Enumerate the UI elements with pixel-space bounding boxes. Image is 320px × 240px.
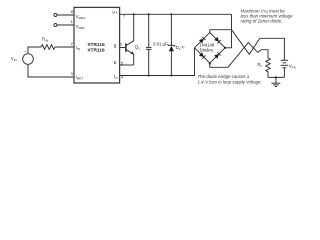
wire top vertex to pair: [210, 30, 232, 33]
node: cap bottom: [148, 74, 150, 76]
svg-text:B: B: [114, 43, 117, 48]
node: collector junction: [133, 13, 135, 15]
svg-text:6: 6: [120, 42, 122, 47]
node: ground junction: [275, 76, 277, 78]
node: bridge right vertex: [224, 47, 226, 49]
terminal VREG (open circle): [54, 14, 57, 17]
twisted pair wire A (top): [232, 30, 285, 60]
resistor RIN: [41, 45, 55, 50]
wire RL bottom: [267, 72, 269, 78]
svg-text:D1(1): D1(1): [176, 45, 185, 51]
wire ground rail: [268, 76, 284, 78]
node: bridge bottom vertex: [209, 63, 211, 65]
wire RIN to pin2: [55, 46, 74, 48]
svg-text:+: +: [24, 50, 26, 54]
svg-text:5: 5: [121, 60, 123, 65]
node: cap top: [148, 13, 150, 15]
svg-text:−: −: [23, 66, 25, 70]
wire battery bottom: [283, 68, 285, 78]
node: zener bottom: [170, 74, 172, 76]
battery VPS: [281, 59, 288, 61]
svg-text:2: 2: [71, 41, 73, 46]
wire VIN bottom to pin3: [28, 64, 74, 77]
wire V+ top rail: [120, 13, 232, 15]
wire pin8: [57, 14, 74, 16]
bridge diode top-left: [199, 39, 204, 44]
resistor RL: [266, 58, 270, 72]
wire V+ rail down to right vertex: [225, 14, 231, 48]
source VIN: [23, 54, 34, 65]
svg-text:7: 7: [123, 14, 125, 19]
bridge diode top-right: [214, 37, 219, 42]
svg-text:0.01 µF: 0.01 µF: [153, 41, 168, 46]
svg-text:Q1: Q1: [135, 44, 140, 50]
svg-text:RL: RL: [257, 62, 262, 68]
svg-text:3: 3: [71, 71, 73, 76]
svg-text:rating of Zener diode.: rating of Zener diode.: [241, 19, 283, 24]
bridge diode bottom-left: [199, 52, 204, 57]
IC U1 XTR115/XTR116 box: [74, 7, 120, 83]
svg-text:V+: V+: [112, 10, 118, 15]
svg-text:E: E: [114, 60, 117, 65]
capacitor C 0.01uF: [148, 14, 150, 47]
wire VIN top to RIN: [28, 47, 41, 54]
terminal VREF (open circle): [54, 24, 57, 27]
node: zener top: [170, 13, 172, 15]
zener D1: [170, 14, 172, 45]
transistor Q1: [120, 47, 126, 49]
svg-text:1.4-V loss in loop supply volt: 1.4-V loss in loop supply voltage.: [198, 79, 262, 84]
bridge diode bottom-right: [214, 54, 219, 59]
svg-text:XTR115: XTR115: [87, 42, 105, 48]
svg-text:VIN: VIN: [11, 56, 17, 62]
svg-text:8: 8: [71, 9, 73, 14]
wire bottom rail pin4 Io: [120, 48, 195, 76]
twisted pair wire B (bottom): [228, 43, 268, 68]
wire pin5 E: [120, 64, 134, 66]
wire pin1: [57, 24, 74, 26]
svg-text:1: 1: [71, 19, 73, 24]
ground: [275, 77, 277, 83]
svg-text:Diodes.: Diodes.: [200, 48, 214, 53]
svg-text:XTR116: XTR116: [87, 48, 105, 54]
svg-text:VPS: VPS: [289, 64, 296, 70]
svg-text:RIN: RIN: [42, 36, 48, 42]
diode bridge frame: [195, 33, 226, 64]
wire bottom vertex to pair: [210, 63, 228, 67]
